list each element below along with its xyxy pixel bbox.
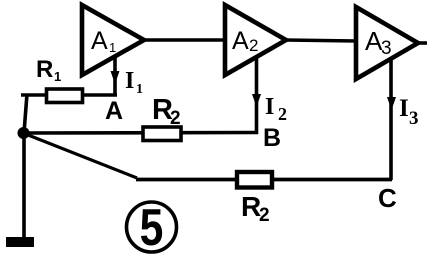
svg-text:I: I bbox=[125, 68, 134, 94]
wire I3 vertical from A3 to node C bbox=[389, 59, 393, 180]
figure number 5 bbox=[127, 202, 177, 252]
wire junction diagonal to bottom row bbox=[23, 133, 137, 178]
svg-text:A: A bbox=[232, 27, 249, 55]
arrow I2 bbox=[252, 94, 261, 107]
svg-text:I: I bbox=[399, 95, 409, 122]
svg-text:3: 3 bbox=[381, 38, 392, 59]
svg-text:2: 2 bbox=[259, 205, 270, 226]
svg-text:B: B bbox=[263, 124, 281, 152]
svg-text:I: I bbox=[265, 94, 274, 120]
resistor R2 (upper) bbox=[143, 127, 181, 141]
svg-text:C: C bbox=[378, 183, 397, 213]
wire A3 output stub bbox=[417, 41, 427, 45]
svg-text:1: 1 bbox=[136, 82, 143, 97]
op-amp A3 bbox=[356, 7, 418, 79]
wire ground vertical bbox=[22, 131, 26, 240]
wire I2 vertical from A2 to node B bbox=[255, 56, 259, 134]
wire node A to R1 bbox=[21, 93, 117, 97]
svg-text:R: R bbox=[36, 56, 53, 83]
wire I1 vertical from A1 to node A bbox=[113, 55, 117, 96]
svg-text:A: A bbox=[105, 97, 123, 125]
svg-text:2: 2 bbox=[278, 104, 287, 124]
svg-text:3: 3 bbox=[409, 108, 419, 129]
resistor R2 (lower) bbox=[237, 172, 272, 188]
ground bbox=[6, 237, 34, 247]
resistor R1 bbox=[47, 89, 83, 103]
op-amp A1 bbox=[82, 5, 144, 75]
wire bottom row to node C bbox=[136, 178, 392, 182]
svg-text:1: 1 bbox=[109, 40, 116, 55]
op-amp A2 bbox=[225, 5, 286, 75]
svg-text:5: 5 bbox=[140, 199, 164, 257]
wire A1 output to A2 input bbox=[143, 38, 227, 42]
wire left vertical down to junction bbox=[24, 94, 27, 133]
svg-text:A: A bbox=[91, 27, 108, 55]
svg-text:2: 2 bbox=[249, 36, 258, 55]
svg-text:2: 2 bbox=[170, 108, 181, 129]
junction dot bbox=[18, 127, 30, 139]
arrow I3 bbox=[387, 97, 396, 110]
arrow I1 bbox=[111, 71, 120, 84]
wire junction to node B bbox=[23, 131, 258, 135]
svg-text:1: 1 bbox=[54, 69, 61, 84]
wire A2 output to A3 input bbox=[285, 40, 357, 41]
